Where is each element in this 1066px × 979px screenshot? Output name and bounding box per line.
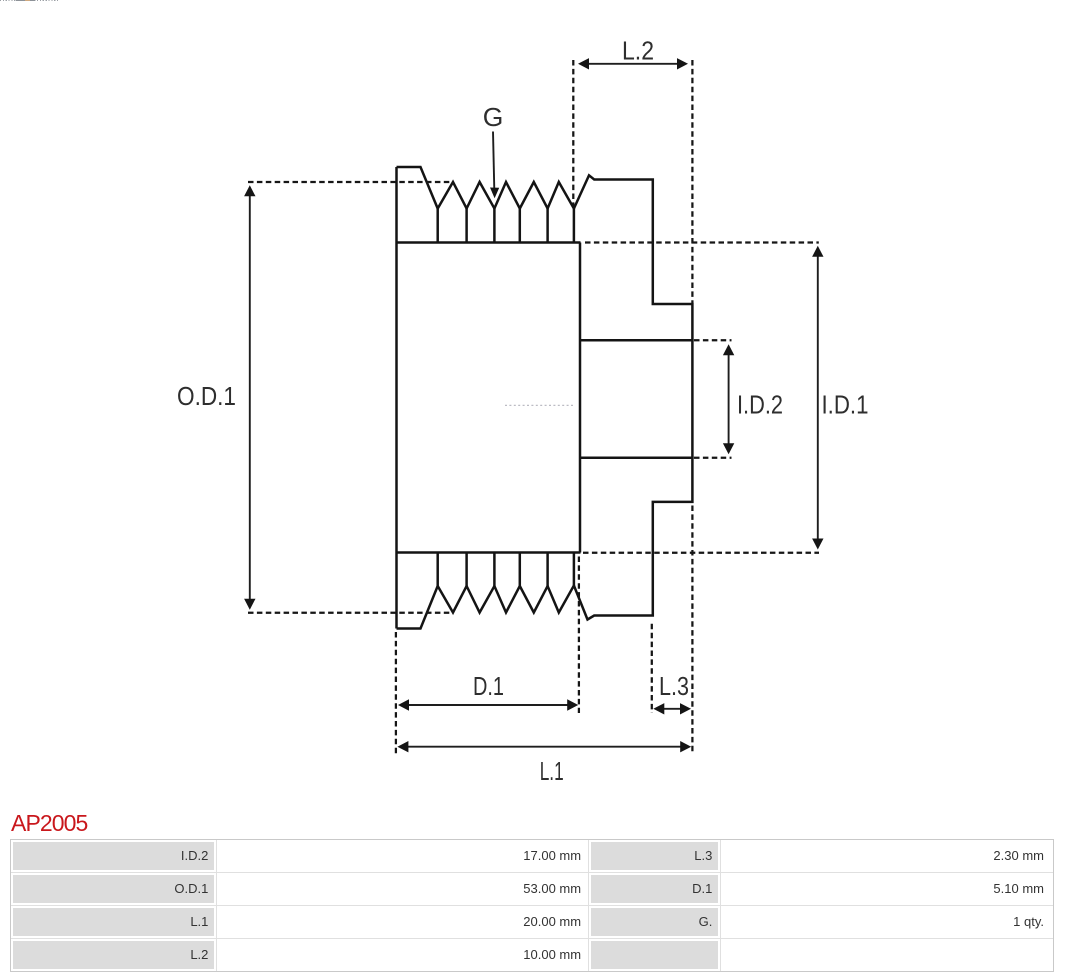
faint center line	[505, 404, 573, 406]
svg-text:G: G	[483, 102, 504, 132]
dimension I.D.2 arrow line	[728, 352, 730, 447]
groove slots top	[438, 208, 574, 242]
groove base line bottom	[397, 551, 581, 554]
part number heading	[11, 810, 87, 837]
dashed I.D.1 top	[585, 241, 819, 243]
dashed L.1 left	[395, 632, 397, 755]
dimension L.1 arrow line	[405, 746, 683, 748]
bore right edge	[691, 339, 694, 459]
pulley bottom profile	[397, 458, 693, 629]
pulley left edge	[395, 167, 398, 629]
dashed I.D.2 bottom	[694, 457, 732, 459]
svg-text:I.D.1: I.D.1	[822, 390, 869, 420]
dashed L.2 right upper	[691, 60, 693, 304]
dimension L.3 arrow line	[662, 708, 682, 710]
svg-text:L.3: L.3	[659, 671, 689, 701]
dashed right lower (L.3 / L.1 right)	[691, 506, 693, 755]
dimension I.D.1 arrow line	[817, 254, 819, 542]
svg-text:O.D.1: O.D.1	[177, 381, 236, 411]
groove slots bottom	[438, 553, 574, 586]
G pointer arrow	[493, 132, 494, 191]
svg-text:L.1: L.1	[540, 756, 564, 786]
dashed L.3 left	[651, 624, 653, 713]
dashed I.D.1 bottom	[583, 552, 819, 554]
dimension O.D.1 arrow line	[249, 194, 251, 601]
pulley top profile	[397, 167, 693, 340]
dimension D.1 arrow line	[406, 704, 570, 706]
dashed O.D.1 top	[248, 181, 453, 183]
dimension L.2 arrow line	[586, 63, 680, 65]
groove base line top	[397, 241, 581, 244]
dashed L.2 left	[572, 60, 574, 207]
specification table	[10, 839, 1054, 972]
pulley body right edge	[579, 243, 582, 553]
svg-text:L.2: L.2	[622, 36, 654, 66]
svg-text:I.D.2: I.D.2	[737, 390, 783, 420]
dashed D.1 right	[578, 557, 580, 714]
svg-text:D.1: D.1	[473, 671, 504, 701]
dashed I.D.2 top	[694, 339, 732, 341]
dashed O.D.1 bottom	[248, 612, 451, 614]
top edge logo sliver	[0, 0, 58, 1]
